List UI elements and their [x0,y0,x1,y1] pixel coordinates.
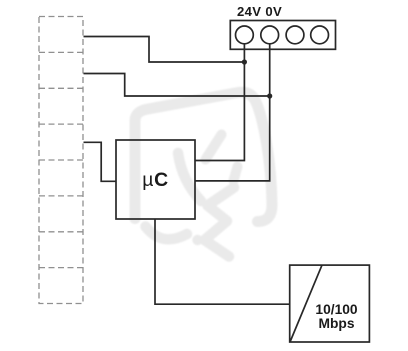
terminal 24V [236,26,254,44]
wire from strip cell1 to 24V [84,37,245,63]
wire from strip cell4 to uC left [84,142,117,181]
diagonal line in PHY box [290,265,322,342]
terminal 3 [286,26,304,44]
microcontroller box uC [116,140,195,219]
terminal block (top) [230,21,335,50]
ethernet PHY box 10/100 Mbps [290,265,370,342]
terminal 4 [311,26,329,44]
wire uC bottom to 10/100 box [155,219,290,304]
label 24V 0V [237,4,282,19]
junction dot on 24V wire [242,59,247,64]
watermark logo [135,92,272,256]
junction dot on 0V wire [267,93,272,98]
label 10/100 Mbps [300,303,373,330]
terminal 0V [261,26,279,44]
wire 0V terminal down to uC right [195,44,270,181]
label uC [116,169,195,192]
wire 24V terminal down to uC right [195,44,244,161]
dashed terminal strip (left) [39,17,83,304]
wire from strip cell2 to 0V [84,74,270,97]
